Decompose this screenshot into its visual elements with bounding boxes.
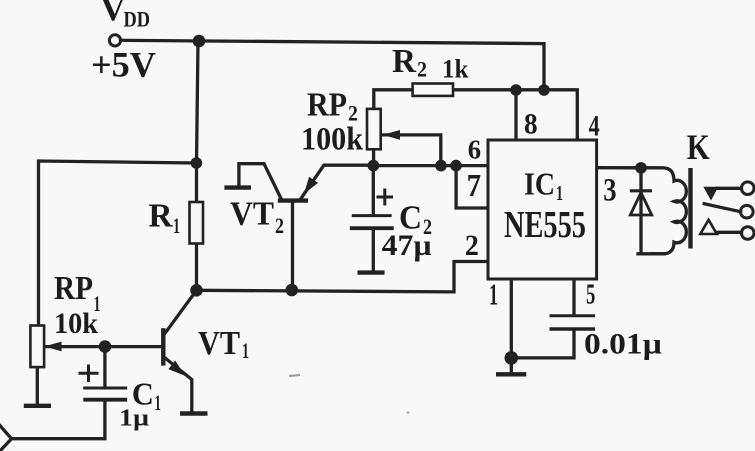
svg-text:47µ: 47µ xyxy=(382,229,432,262)
svg-text:R: R xyxy=(149,198,173,235)
svg-text:RP: RP xyxy=(307,86,347,123)
svg-text:0.01µ: 0.01µ xyxy=(584,328,662,361)
svg-text:NE555: NE555 xyxy=(504,204,586,246)
svg-text:100k: 100k xyxy=(301,122,364,158)
svg-text:2: 2 xyxy=(275,213,284,238)
svg-text:1: 1 xyxy=(489,277,498,312)
svg-text:1: 1 xyxy=(155,390,162,415)
svg-text:RP: RP xyxy=(54,270,93,307)
svg-text:1: 1 xyxy=(173,213,180,238)
svg-text:V: V xyxy=(101,0,126,28)
svg-text:8: 8 xyxy=(524,107,538,140)
svg-text:2: 2 xyxy=(465,229,479,262)
svg-text:DD: DD xyxy=(124,7,151,32)
svg-text:K: K xyxy=(687,127,710,167)
svg-text:3: 3 xyxy=(603,173,616,209)
svg-text:R: R xyxy=(392,43,416,80)
svg-text:VT: VT xyxy=(198,325,240,362)
svg-text:2: 2 xyxy=(417,57,427,82)
svg-text:1: 1 xyxy=(242,338,249,363)
svg-text:6: 6 xyxy=(468,135,481,165)
svg-text:5: 5 xyxy=(586,280,595,311)
svg-text:10k: 10k xyxy=(54,307,98,340)
svg-text:+5V: +5V xyxy=(91,45,156,85)
svg-text:1: 1 xyxy=(556,181,563,205)
svg-text:7: 7 xyxy=(467,167,481,203)
svg-text:1µ: 1µ xyxy=(119,406,149,432)
svg-text:4: 4 xyxy=(589,110,600,143)
svg-text:IC: IC xyxy=(524,165,555,201)
svg-text:1k: 1k xyxy=(442,54,469,83)
svg-text:VT: VT xyxy=(230,196,274,233)
